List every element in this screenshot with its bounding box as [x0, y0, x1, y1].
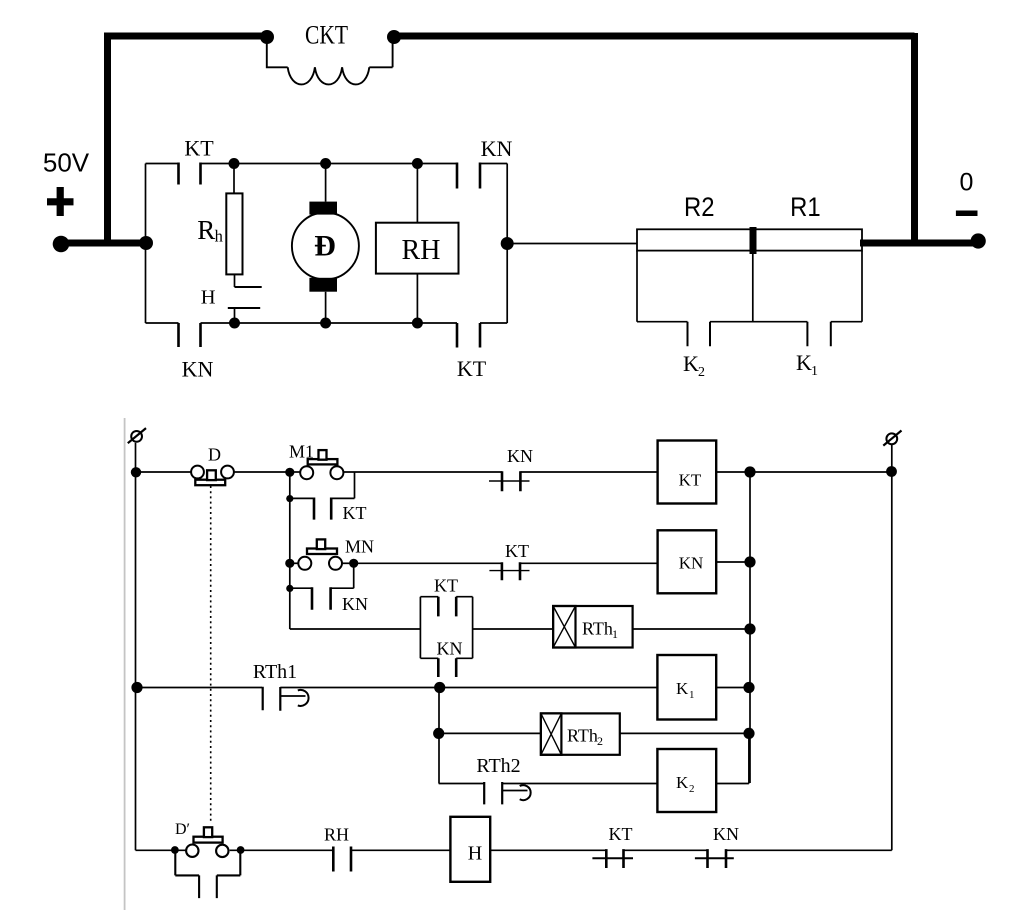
svg-text:K: K [796, 350, 812, 375]
relay coil RH wires [416, 164, 418, 324]
wire: to RTh2 coil [439, 732, 541, 734]
node: bus row5 dot [743, 728, 754, 739]
svg-text:K: K [676, 773, 689, 792]
wire: collector bus vertical [749, 472, 751, 783]
wire: right rail [891, 444, 893, 850]
wire: K2 coil to bus riser [716, 733, 749, 783]
node: right rail row1 dot [886, 466, 897, 477]
wire: M1 branch down to MN [289, 499, 291, 564]
svg-text:D′: D′ [175, 821, 190, 838]
wire: thick top bus right segment with right drop [394, 33, 915, 243]
svg-text:50V: 50V [43, 148, 90, 178]
node: CKT left dot [260, 30, 274, 44]
svg-text:RH: RH [324, 825, 349, 845]
motor D body [292, 213, 359, 280]
svg-text:K: K [683, 351, 699, 376]
contact KT (NC, row2) [502, 562, 520, 580]
svg-text:1: 1 [612, 627, 618, 641]
svg-text:MN: MN [345, 537, 374, 557]
svg-text:R2: R2 [684, 192, 715, 222]
wire: KT to KN coil [520, 562, 658, 564]
wire: left rail corner to D' [136, 849, 187, 851]
contact K2 legs [688, 322, 711, 347]
wire: motor block left vertical [145, 164, 147, 324]
relay coil H box [450, 817, 490, 882]
wire: thick left supply horizontal [57, 240, 149, 247]
relay coil K2 box [657, 749, 716, 812]
wire: MN to KT contact [342, 562, 354, 564]
faint page border line [124, 418, 126, 910]
thick tap divider [750, 227, 757, 254]
svg-text:CKT: CKT [305, 20, 348, 49]
wire: rail to D button [136, 471, 191, 473]
wire: thick top bus left segment [104, 33, 267, 40]
svg-text:KN: KN [713, 824, 739, 844]
wire: thick right supply horizontal [860, 240, 981, 247]
wire: K1 coil to bus [716, 687, 749, 689]
wire: RTh2 coil to bus [620, 732, 749, 734]
resistor Rh [226, 193, 242, 274]
wire: KT to KN contact [624, 849, 708, 851]
wire: to RTh2 contact [439, 783, 485, 785]
node: motor top dots [229, 158, 240, 169]
svg-text:KT: KT [609, 824, 633, 844]
contact KN (bottom-left, NO) [179, 323, 201, 347]
contact RH (NO) [333, 847, 351, 872]
svg-text:KT: KT [679, 471, 702, 490]
relay coil K1 box [657, 655, 716, 720]
contact H (knife, open) [228, 287, 262, 308]
wire: contact to K1 coil [280, 687, 657, 689]
contact KN (top-right, NO) [457, 163, 480, 189]
svg-text:RTh: RTh [567, 726, 598, 746]
wire: left rail [135, 443, 137, 851]
svg-text:RTh: RTh [582, 619, 613, 639]
node: left rail row1 dot [131, 467, 141, 477]
timer coil RTh1 [553, 606, 633, 648]
node: RTh2 branch dot [433, 728, 444, 739]
contact KN (aux parallel to MN) [290, 563, 354, 588]
svg-text:2: 2 [689, 783, 695, 795]
svg-text:KT: KT [505, 541, 529, 561]
svg-text:M1: M1 [289, 442, 314, 462]
wire: block to RTh1 coil [473, 628, 553, 630]
node: supply junction dot [139, 236, 153, 250]
minus terminal symbol [956, 210, 978, 216]
relay coil RH box [376, 223, 459, 274]
node: bus row1 dot [744, 466, 755, 477]
node: MN right dot [349, 559, 358, 568]
svg-text:D: D [208, 445, 221, 465]
pushbutton M1 (NO) [290, 471, 300, 473]
svg-text:KT: KT [457, 356, 487, 381]
contact KN (NC, bottom) [708, 849, 727, 868]
wire: contact to K2 coil [502, 783, 657, 785]
wire: RTh1 coil to bus [633, 628, 750, 630]
wire: KN to right rail [726, 849, 892, 851]
resistor frame verticals [637, 251, 862, 322]
node: right supply dot [971, 233, 986, 248]
wire: bottom rail to right vertical [480, 322, 507, 324]
wire: thick left supply drop [104, 33, 111, 243]
inductor CKT [267, 40, 393, 67]
wire: Rh branch top [233, 164, 235, 194]
motor D wires [325, 164, 327, 324]
mechanical link dotted line [210, 486, 212, 824]
node: bus row3 dot [744, 623, 755, 634]
wire: branch down [438, 688, 440, 784]
node: row4 branch dot [434, 682, 445, 693]
wire: motor block bottom rail (with KN gap) [146, 322, 458, 324]
svg-text:R: R [197, 215, 215, 245]
svg-text:R1: R1 [790, 192, 821, 222]
svg-text:H: H [201, 286, 216, 308]
timer coil RTh2 [541, 713, 620, 754]
relay coil KT box [658, 441, 717, 504]
node: motor bottom dots [229, 318, 240, 329]
wire: RH to H coil [351, 849, 450, 851]
wire: top rail to right vertical [480, 164, 507, 324]
pushbutton MN (NO) [290, 562, 299, 564]
contact KT (top-left, NO) [179, 163, 201, 185]
svg-text:h: h [215, 227, 224, 246]
svg-text:2: 2 [597, 734, 603, 748]
svg-text:Đ: Đ [314, 230, 336, 263]
contact K1 legs [807, 322, 830, 347]
node: M1 branch dot [285, 468, 294, 477]
node: bus row4 dot [743, 682, 754, 693]
terminal left (phase) [131, 431, 142, 442]
wire: MN branch down to row3 [290, 588, 421, 629]
contact KT (NC, bottom) [606, 849, 623, 868]
node: bus row2 dot [744, 556, 755, 567]
contact KT (bottom-right, NO) [457, 323, 480, 348]
wire: D to M1 [234, 471, 290, 473]
relay coil KN box [658, 530, 717, 593]
wire: node to R2 [507, 243, 637, 245]
pushbutton D' (NO) [186, 845, 198, 857]
wire: M1 to KN contact [343, 471, 502, 473]
svg-text:K: K [676, 679, 689, 698]
contact block KT/KN parallel [420, 597, 472, 659]
node: MN branch dot [285, 559, 294, 568]
wire: D' to RH contact [230, 849, 333, 851]
svg-text:KT: KT [184, 136, 214, 161]
svg-text:RTh1: RTh1 [253, 661, 297, 683]
svg-text:2: 2 [698, 365, 705, 380]
svg-text:KT: KT [343, 503, 367, 523]
contact KN (NC, row1) [502, 471, 520, 491]
node: left rail row4 dot [131, 682, 142, 693]
plus terminal symbol [47, 187, 74, 216]
wire: below Rh [234, 274, 236, 287]
svg-text:0: 0 [959, 169, 973, 197]
wire: rail to RTh1 contact [137, 687, 262, 689]
svg-text:1: 1 [811, 364, 818, 379]
node: CKT right dot [387, 30, 401, 44]
svg-text:KN: KN [679, 554, 704, 573]
svg-text:1: 1 [689, 689, 695, 701]
wire: H to bottom rail [234, 308, 236, 323]
wire: KN to KT coil [520, 471, 657, 473]
node: D' left dot [171, 846, 179, 854]
wire: KT coil to right rail [716, 471, 891, 473]
svg-text:RTh2: RTh2 [476, 755, 520, 777]
svg-text:KN: KN [481, 136, 513, 161]
svg-text:RH: RH [402, 235, 441, 266]
wire: H to KT contact [490, 849, 606, 851]
svg-text:H: H [468, 843, 482, 865]
resistor frame bottom segments [637, 321, 862, 323]
contact RTh1 (NC, time delayed) [263, 687, 281, 711]
svg-text:KN: KN [182, 357, 214, 382]
contact KT (aux parallel to M1) [290, 472, 355, 498]
svg-text:KT: KT [434, 576, 458, 596]
pushbutton D (NC) [191, 466, 204, 479]
contact under D' [175, 850, 199, 898]
terminal right (phase) [886, 433, 897, 444]
svg-text:KN: KN [437, 639, 463, 659]
node: D' right dot [237, 846, 245, 854]
node: right branch dot [501, 237, 514, 250]
node: left supply dot [53, 236, 70, 253]
contact RTh2 (NC, time delayed) [484, 782, 502, 804]
wire: KN coil to bus [716, 561, 750, 563]
svg-text:KN: KN [507, 446, 533, 466]
resistor R2/R1 body [637, 229, 862, 250]
motor D brushes [309, 202, 337, 215]
wire: motor block top rail (with KT gap) [146, 163, 458, 165]
svg-text:KN: KN [342, 594, 368, 614]
